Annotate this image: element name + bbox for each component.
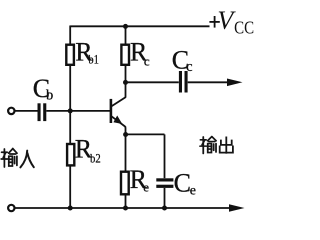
svg-text:b: b bbox=[46, 87, 53, 103]
svg-text:e: e bbox=[190, 184, 196, 199]
svg-text:c: c bbox=[186, 59, 192, 75]
svg-text:e: e bbox=[143, 180, 149, 195]
svg-text:C: C bbox=[174, 169, 191, 198]
svg-text:b1: b1 bbox=[88, 52, 99, 67]
svg-text:CC: CC bbox=[234, 18, 254, 38]
svg-text:b2: b2 bbox=[90, 151, 101, 166]
svg-text:c: c bbox=[144, 53, 150, 68]
